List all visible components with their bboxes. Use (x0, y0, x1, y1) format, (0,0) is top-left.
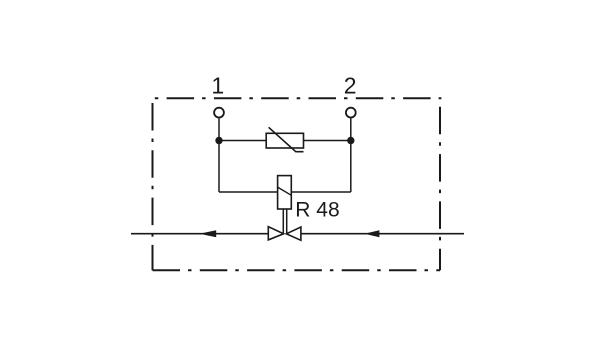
svg-text:R 48: R 48 (295, 199, 339, 222)
svg-text:2: 2 (344, 72, 357, 98)
svg-text:1: 1 (211, 73, 224, 99)
